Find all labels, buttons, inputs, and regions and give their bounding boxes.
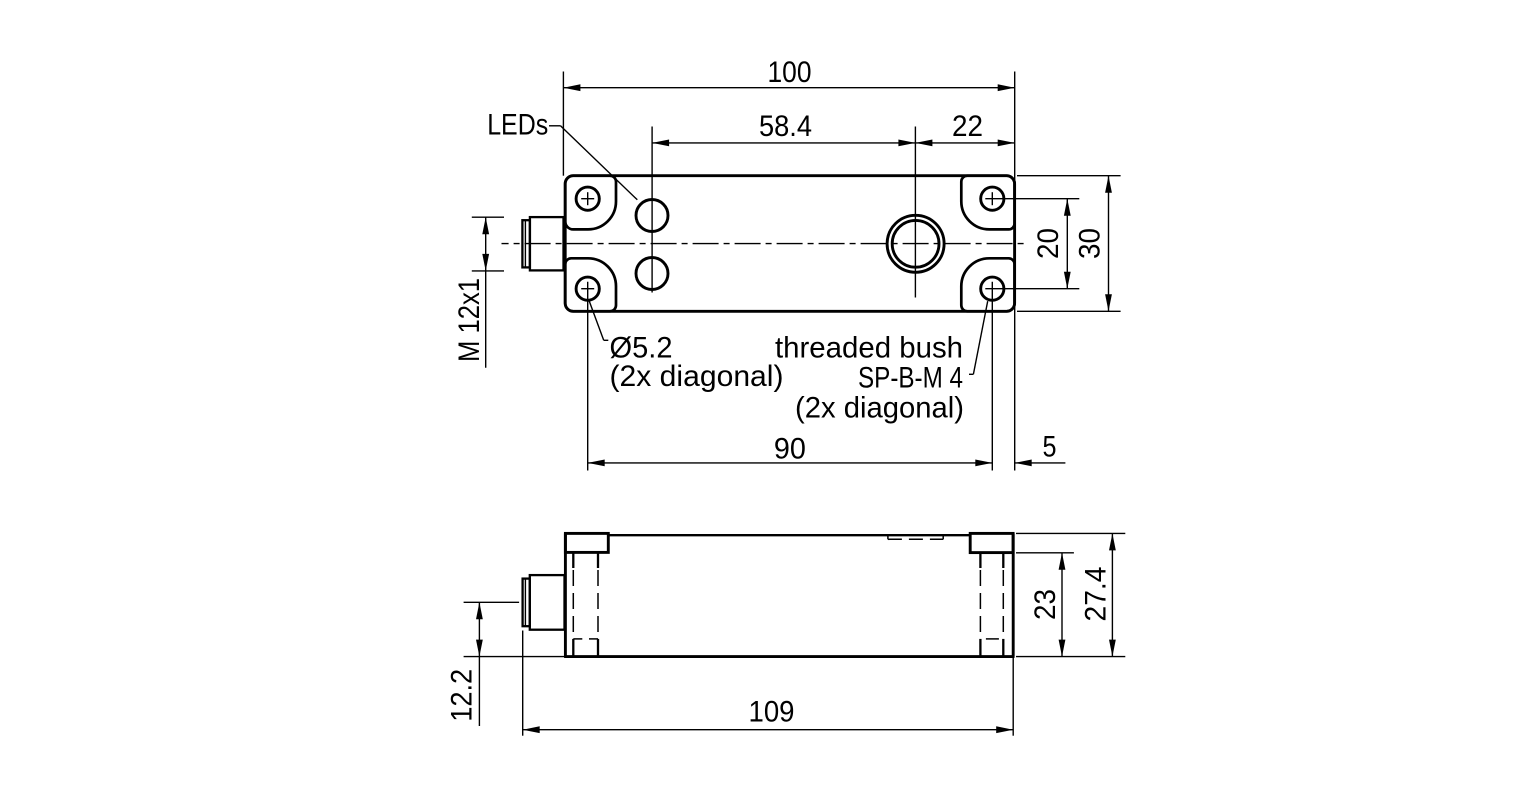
svg-text:(2x diagonal): (2x diagonal) <box>795 391 964 424</box>
screw hole bottom-left <box>576 277 599 300</box>
svg-text:SP-B-M 4: SP-B-M 4 <box>858 361 963 394</box>
extension line bottom edge left (dim 12.2) <box>464 656 566 658</box>
threaded bush bore inner <box>892 220 939 267</box>
svg-text:27.4: 27.4 <box>1080 567 1113 622</box>
extension lines connector (dim M12x1) <box>472 216 504 218</box>
svg-text:LEDs: LEDs <box>487 108 548 141</box>
extension line connector tip (dim 109) <box>522 631 524 736</box>
threaded bush bore outer <box>887 215 944 272</box>
extension line right screws (dims 90/5) <box>991 282 993 471</box>
hidden recess on top face <box>887 535 889 539</box>
extension line body right lower (dim 109) <box>1012 657 1014 736</box>
corner pocket top-left <box>565 176 616 230</box>
corner pocket bottom-right <box>961 258 1014 311</box>
side view body left edge <box>564 533 567 656</box>
svg-text:5: 5 <box>1043 431 1057 464</box>
leader LEDs <box>549 125 561 127</box>
dimension 23 <box>1061 553 1063 657</box>
svg-text:12.2: 12.2 <box>446 669 479 722</box>
svg-text:30: 30 <box>1074 228 1107 259</box>
extension line through LEDs (dim 58.4) <box>651 127 653 293</box>
svg-text:109: 109 <box>749 696 795 729</box>
extension line bottom right (dims 23/27.4) <box>1016 656 1125 658</box>
extension line clamp shoulder (dim 23) <box>1016 552 1074 554</box>
M12 connector side view body <box>530 575 565 630</box>
extension line through bush (dims 58.4/22) <box>914 127 916 298</box>
clamp insert hidden lines right <box>979 553 981 568</box>
side view body bottom edge <box>564 655 1014 658</box>
M12 connector top view body <box>530 217 564 270</box>
extension lines right screw rows (dim 20) <box>985 198 1079 200</box>
screw hole bottom-right <box>981 277 1004 300</box>
dimension M 12x1 <box>485 217 487 368</box>
M12 connector top view thread lip <box>522 220 530 267</box>
screw hole top-left <box>576 187 599 210</box>
dimension 30 <box>1108 176 1110 312</box>
LED hole upper <box>636 200 668 232</box>
leader diameter 5.2 <box>589 301 604 340</box>
top view body outline <box>565 176 1014 312</box>
screw hole top-right <box>981 187 1004 210</box>
LED hole lower <box>636 258 668 290</box>
corner pocket bottom-left <box>565 258 616 311</box>
dimension 5 <box>1015 462 1066 464</box>
svg-text:threaded bush: threaded bush <box>775 331 963 364</box>
M12 connector side view thread lip <box>523 579 530 627</box>
svg-text:100: 100 <box>768 56 812 89</box>
svg-text:20: 20 <box>1032 228 1065 259</box>
clamp insert hidden lines left <box>572 552 574 568</box>
svg-text:23: 23 <box>1029 589 1062 620</box>
extension line cap top (dim 27.4) <box>1016 532 1125 534</box>
extension line right of body (dims 100/22/5) <box>1014 72 1016 471</box>
extension line connector center (dim 12.2) <box>464 601 519 603</box>
svg-text:22: 22 <box>952 110 983 143</box>
dimension 20 <box>1066 199 1068 289</box>
svg-text:58.4: 58.4 <box>759 110 812 143</box>
dimension 100 <box>563 87 1014 89</box>
horizontal center line (dash-dot) <box>502 243 1028 245</box>
dimension 12.2 <box>478 602 480 726</box>
corner pocket top-right <box>961 176 1014 230</box>
extension lines body top/bottom right (dim 30) <box>1017 175 1121 177</box>
extension line left of body (dim 100) <box>562 72 564 176</box>
extension line left screws (dim 90) <box>587 282 589 471</box>
dimension 22 <box>915 142 1014 144</box>
dimension 27.4 <box>1111 533 1113 656</box>
clamp cap left <box>565 533 608 552</box>
dimension 90 <box>588 462 993 464</box>
clamp cap right <box>970 533 1013 552</box>
side view body top edge between clamps <box>608 534 970 536</box>
side view body right edge <box>1012 533 1015 656</box>
svg-text:(2x diagonal): (2x diagonal) <box>610 360 784 393</box>
leader threaded bush <box>973 301 987 374</box>
svg-text:90: 90 <box>774 433 806 466</box>
svg-text:M 12x1: M 12x1 <box>453 278 486 362</box>
dimension 109 <box>523 729 1014 731</box>
dimension 58.4 <box>652 142 915 144</box>
